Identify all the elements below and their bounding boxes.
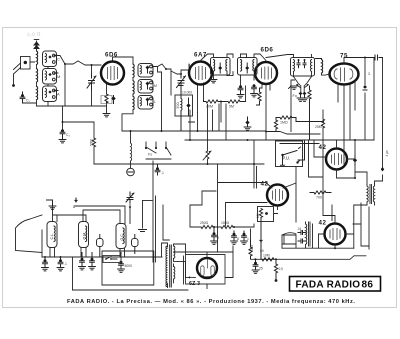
electrolytic 8mf a — [211, 227, 219, 244]
RF coil box 2 — [138, 80, 157, 94]
wire RF switch to 6A7 grid — [153, 64, 172, 131]
svg-text:25M: 25M — [315, 125, 322, 129]
bus y164 — [94, 163, 264, 165]
resistor right small — [274, 258, 283, 282]
svg-text:C: C — [57, 57, 60, 62]
capacitor coupling mid — [244, 117, 251, 141]
capacitor detector a — [297, 92, 304, 102]
wire rect plate top — [174, 246, 234, 289]
svg-text:10M: 10M — [250, 244, 254, 251]
output transformer — [367, 184, 375, 205]
svg-text:42: 42 — [319, 144, 327, 151]
svg-text:250Ω: 250Ω — [200, 221, 209, 225]
wire IF2 leads — [241, 54, 267, 86]
wire grid V2 — [171, 65, 190, 75]
resistor 20M — [204, 100, 222, 109]
oscillator coil box — [175, 86, 193, 132]
capacitor bl3 5000 — [117, 253, 132, 273]
svg-text:150Ω: 150Ω — [221, 221, 230, 225]
wire v6 42 connections — [218, 164, 297, 252]
power transformer HV secondary — [174, 244, 186, 283]
wire mid verticals — [189, 104, 319, 188]
IF transformer 1 box — [211, 58, 231, 76]
resistor filter a — [198, 221, 221, 229]
tone capacitor v5 — [353, 155, 357, 165]
RF coil primary column — [122, 63, 134, 131]
wire left hv — [62, 106, 95, 164]
svg-text:50Ω: 50Ω — [176, 102, 180, 109]
ground bottom left a — [47, 200, 56, 209]
resistor 25M right — [315, 119, 325, 129]
svg-text:5000: 5000 — [90, 139, 94, 146]
capacitor bus b — [57, 257, 67, 271]
wire right second riser — [364, 58, 366, 141]
svg-text:Fo: Fo — [293, 94, 297, 98]
antenna symbol top — [34, 40, 39, 51]
frame aerial polygon — [16, 215, 43, 257]
resistor 500 v6 screen — [256, 207, 274, 260]
capacitor IF2 b — [251, 84, 258, 97]
capacitor IF2 grid — [237, 85, 244, 98]
svg-text:P.U.: P.U. — [283, 156, 291, 161]
resistor vert small — [249, 240, 254, 259]
choke field coil — [306, 222, 311, 246]
svg-text:1: 1 — [247, 237, 249, 241]
capacitor V1 cathode bypass — [111, 96, 116, 104]
svg-text:5000: 5000 — [125, 264, 133, 268]
capacitor C5 left — [59, 129, 70, 143]
ground V1 cathode — [103, 114, 110, 117]
resistor V3 cathode — [257, 88, 262, 105]
svg-text:1M: 1M — [256, 213, 260, 218]
stamp box FADA RADIO 86 — [290, 277, 381, 292]
diode detector wires — [294, 77, 312, 93]
wires bottom right area — [282, 203, 369, 249]
svg-text:6D6: 6D6 — [261, 47, 274, 54]
capacitor bl2 — [89, 253, 96, 270]
resistor 1M top — [276, 116, 296, 125]
mains switch box — [103, 256, 121, 263]
svg-text:0,5: 0,5 — [279, 267, 284, 271]
wire filter chain — [190, 191, 254, 240]
RF coil box 1 — [138, 64, 153, 78]
power transformer primary — [162, 243, 168, 288]
antenna input funnel — [12, 57, 34, 87]
svg-text:5M: 5M — [229, 105, 234, 109]
svg-text:A: A — [57, 92, 60, 97]
svg-text:6D6: 6D6 — [105, 52, 118, 59]
resistor det load — [308, 86, 311, 140]
electrolytic 8mf b — [231, 231, 239, 244]
wire V3 bottom — [260, 84, 271, 140]
svg-text:C₅: C₅ — [66, 133, 71, 137]
wire V2 bottom — [189, 64, 204, 131]
switch box bl1 — [97, 235, 104, 258]
wire v7 42 connections — [319, 140, 368, 248]
svg-text:C.L.: C.L. — [50, 233, 54, 240]
wire AVC bus — [220, 86, 246, 122]
svg-text:M: M — [154, 84, 157, 88]
svg-text:,1: ,1 — [64, 262, 67, 266]
antenna coil primary windings — [37, 50, 38, 106]
resistor 700 — [310, 191, 331, 200]
bus yB bottom — [225, 252, 233, 278]
switch box bl2 — [132, 235, 139, 254]
volume potentiometer — [203, 147, 211, 165]
capacitor mid small — [155, 164, 164, 175]
svg-text:O.M.: O.M. — [83, 232, 87, 240]
capacitor osc padder — [186, 98, 194, 122]
wire grid V1 — [78, 61, 101, 74]
tube V5 42 — [319, 144, 348, 170]
wire right riser — [381, 58, 385, 172]
bus B+ y140 — [185, 139, 374, 141]
wire rect heater — [178, 261, 196, 278]
rectifier box — [186, 255, 226, 285]
bus y131 — [122, 130, 320, 134]
capacitor C1 — [20, 92, 30, 103]
svg-text:FADA RADIO: FADA RADIO — [296, 280, 361, 291]
power transformer core — [170, 245, 172, 287]
capacitor 25 — [252, 258, 263, 273]
wires bottom-left bottoms to bus — [50, 248, 125, 258]
resistor far right — [385, 150, 389, 156]
tube V4 75 — [330, 53, 359, 85]
svg-text:L: L — [154, 100, 156, 104]
capacitor speaker a — [297, 227, 306, 235]
electrolytic 8mf c — [241, 231, 249, 244]
svg-text:4 μs: 4 μs — [385, 150, 389, 156]
wave switch mid — [145, 142, 171, 159]
tuning capacitor gang1 — [87, 74, 96, 90]
wire V1 plate to RF coils — [113, 57, 134, 63]
svg-text:,01: ,01 — [297, 227, 302, 231]
svg-text:10M: 10M — [263, 254, 270, 258]
RF coil box 3 — [138, 96, 156, 110]
resistor left dropper — [90, 138, 96, 147]
pilot lamp — [127, 168, 135, 176]
svg-text:6A7: 6A7 — [194, 52, 207, 59]
resistor 50M vert — [274, 118, 277, 132]
trimmer bottom mid — [126, 192, 134, 208]
wire right grid chain — [296, 110, 324, 140]
svg-text:86: 86 — [362, 280, 374, 291]
wire IF1 leads — [201, 54, 233, 83]
wire band switch to grid — [54, 56, 78, 107]
svg-text:,1: ,1 — [161, 171, 164, 175]
capacitor right mid — [363, 72, 370, 90]
tube V2 6A7 — [189, 52, 212, 85]
osc tracking coil — [130, 130, 132, 168]
IF transformer 3 box — [291, 58, 315, 77]
wire IF3 leads — [266, 55, 312, 77]
tube V8 rectifier 6Z3 — [189, 258, 217, 287]
svg-text:8: 8 — [217, 236, 219, 240]
svg-text:M: M — [57, 74, 60, 79]
svg-text:FADA RADIO. - La Precisa. —: FADA RADIO. - La Precisa. — Mod. « 86 ».… — [67, 299, 355, 305]
antenna coil secondary box C — [43, 51, 61, 67]
tube V3 6D6 — [255, 47, 277, 85]
tube V6 42 — [261, 181, 289, 206]
svg-text:3: 3 — [368, 72, 370, 76]
resistor filter b — [221, 221, 243, 229]
wire det left drop — [289, 80, 298, 132]
P.U. box — [276, 141, 305, 167]
capacitor bl1 — [79, 253, 86, 270]
shielded pair down to transformer — [153, 161, 169, 262]
coil box OC — [116, 224, 126, 249]
bus y257 right — [252, 205, 367, 259]
wire antenna block bottoms — [23, 67, 107, 107]
capacitor bus a — [42, 257, 49, 271]
IF transformer 2 box — [238, 58, 258, 76]
coil box CG — [47, 222, 57, 248]
bus bottom y257 — [42, 256, 162, 290]
resistor V1 cathode — [101, 94, 112, 104]
wire V1 cathode — [106, 84, 108, 113]
ground mid-left — [139, 201, 153, 232]
svg-text:700: 700 — [316, 196, 322, 200]
tube V7 42 — [319, 220, 346, 245]
capacitor detector b — [301, 92, 308, 102]
svg-text:O.C.: O.C. — [120, 233, 124, 240]
wires bottom-left tops — [53, 206, 131, 224]
ground bottom left b — [74, 198, 78, 203]
svg-text:Fo: Fo — [148, 153, 152, 157]
speaker body — [282, 233, 296, 244]
capacitor top right — [371, 55, 383, 60]
IF3 secondary winding to 75 — [316, 59, 330, 76]
wire 75 cathode drop — [338, 80, 355, 164]
resistor 5M — [221, 100, 246, 109]
big rect around PSU — [73, 251, 189, 290]
antenna coil secondary box M — [43, 69, 61, 85]
svg-text:8: 8 — [237, 237, 239, 241]
svg-text:25: 25 — [259, 267, 263, 271]
wire far right risers — [373, 58, 375, 141]
svg-text:50: 50 — [260, 249, 264, 253]
antenna coil secondary box A — [43, 86, 61, 102]
wire output stage — [309, 139, 383, 184]
svg-text:42: 42 — [319, 220, 327, 227]
svg-text:1MΩ: 1MΩ — [280, 121, 288, 125]
capacitor speaker b — [298, 239, 306, 243]
tuning capacitor gang2 — [177, 74, 186, 88]
coil box OM — [79, 222, 89, 248]
wire 75 plate top — [344, 57, 371, 64]
svg-text:10,000: 10,000 — [182, 91, 192, 95]
resistor 10M h — [262, 254, 274, 261]
